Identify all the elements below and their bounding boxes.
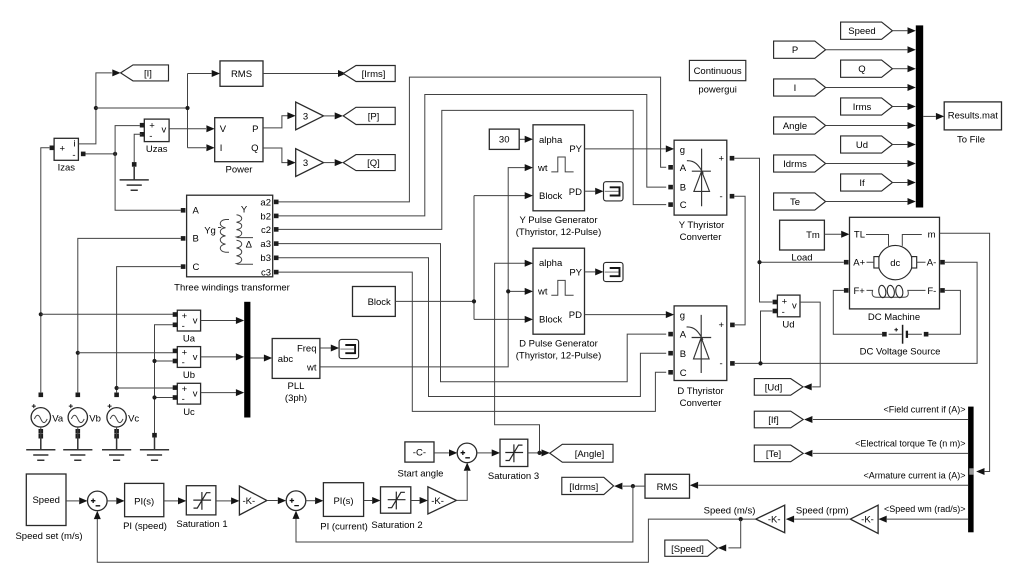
pin DC machine F+ port [844, 288, 849, 293]
pin Ub ports [173, 349, 178, 364]
wire D converter minus to A- and Ud minus [735, 262, 977, 363]
svg-text:[Ud]: [Ud] [765, 382, 782, 393]
wire Speed set to speed sum [66, 497, 88, 504]
svg-text:D Thyristor: D Thyristor [677, 386, 723, 397]
block Saturation 3 [488, 439, 539, 482]
svg-text:[Idrms]: [Idrms] [569, 482, 598, 493]
pin Vb bottom ports [76, 427, 81, 439]
block DC Machine [850, 217, 940, 322]
block RMS (top) [220, 61, 263, 86]
svg-text:P: P [792, 45, 798, 56]
wire sum to PI current [306, 497, 324, 504]
from tag P [774, 41, 826, 58]
wire gain 3a to [P] [324, 112, 344, 119]
svg-text:-: - [182, 394, 185, 405]
svg-text:30: 30 [499, 135, 510, 146]
svg-text:-: - [720, 359, 723, 370]
wire Ud v to [Ud] tag [800, 302, 820, 390]
wire mux to PLL [250, 355, 272, 362]
wire angle sum to saturation 3 [476, 449, 500, 456]
svg-text:v: v [162, 125, 167, 136]
block Saturation 1 [176, 486, 227, 530]
pin D converter A port [668, 332, 673, 337]
wire Idrms feedback to current sum [293, 486, 633, 542]
svg-text:Te: Te [790, 197, 800, 208]
wire saturation 2 to gain 2 [411, 497, 428, 504]
svg-text:PI (current): PI (current) [320, 521, 368, 532]
svg-text:DC Machine: DC Machine [868, 312, 920, 323]
wire into RMS [212, 70, 220, 77]
svg-text:RMS: RMS [657, 482, 678, 493]
wire c3 to D converter C [279, 272, 667, 411]
svg-text:Continuous: Continuous [694, 66, 742, 77]
svg-text:[Speed]: [Speed] [671, 544, 704, 555]
svg-text:B: B [680, 349, 686, 360]
wire Ub v to mux [201, 353, 245, 360]
wire If to recorder mux [892, 179, 915, 186]
svg-text:-: - [720, 192, 723, 203]
ground (neutral) [140, 437, 169, 461]
svg-text:A-: A- [927, 258, 937, 269]
wire I to recorder mux [826, 84, 916, 91]
node current signal split [94, 106, 98, 110]
pin Y converter minus port [730, 194, 735, 199]
pin Ud ports [773, 300, 778, 314]
demux measurement bus [968, 407, 974, 533]
svg-text:-: - [72, 150, 75, 161]
svg-text:v: v [193, 389, 198, 400]
svg-text:-: - [182, 357, 185, 368]
svg-text:c3: c3 [261, 268, 271, 279]
goto tag [I] [112, 65, 168, 81]
svg-text:C: C [680, 368, 687, 379]
wire Y PD to terminator [585, 188, 604, 195]
voltage measurement Uzas [144, 119, 169, 155]
sum current error [286, 491, 306, 511]
voltage measurement Uc [177, 383, 200, 418]
pin transformer B port [181, 236, 186, 241]
wire phase A: Va source up to Izas input, tap to Ua [41, 148, 50, 393]
node wt split [506, 289, 510, 293]
ground (Vc) [102, 437, 131, 461]
svg-text:Ua: Ua [183, 334, 196, 345]
svg-text:P: P [252, 124, 258, 135]
svg-text:[Angle]: [Angle] [575, 449, 605, 460]
svg-text:Speed: Speed [32, 495, 59, 506]
block PI (speed) [123, 483, 167, 531]
wire Y converter minus to D converter plus [734, 196, 745, 325]
svg-text:D Pulse Generator: D Pulse Generator [519, 339, 598, 350]
svg-text:+: + [60, 144, 66, 155]
wire b2 to Y converter B [279, 95, 667, 216]
svg-text:Converter: Converter [680, 398, 722, 409]
wire demux torque to [Te] [804, 450, 968, 457]
svg-text:(3ph): (3ph) [285, 393, 307, 404]
svg-text:Q: Q [251, 143, 258, 154]
wire gain 1 to current sum [267, 497, 286, 504]
pin D converter plus port [730, 323, 735, 328]
node D minus split [758, 361, 762, 365]
gain 3 (P) [296, 102, 324, 130]
wire Uzas v to Power V [169, 125, 215, 132]
pin ground port (neutral) [152, 433, 157, 438]
wire Ub plus tap [78, 352, 173, 354]
svg-text:+: + [719, 320, 725, 331]
label field current [883, 405, 965, 415]
svg-text:Yg: Yg [204, 226, 216, 237]
svg-text:v: v [193, 352, 198, 363]
wire gain rpm to gain m/s [786, 516, 851, 523]
wire to [Speed] tag [718, 519, 741, 551]
svg-text:-K-: -K- [768, 515, 781, 526]
wire alpha to D alpha [495, 260, 540, 453]
svg-text:C: C [680, 200, 687, 211]
wire -C- to angle sum [434, 449, 457, 456]
svg-text:C: C [193, 262, 200, 273]
pin Y converter A port [668, 165, 673, 170]
pin Izas minus output port [81, 152, 86, 157]
svg-text:c2: c2 [261, 225, 271, 236]
pin battery right port [924, 332, 929, 337]
svg-text:To File: To File [957, 135, 985, 146]
svg-text:Converter: Converter [680, 232, 722, 243]
block Power [215, 118, 263, 176]
wire a2 to Y converter A [279, 77, 667, 202]
goto tag [Ud] [754, 379, 803, 396]
svg-text:Speed set (m/s): Speed set (m/s) [15, 531, 82, 542]
svg-text:-K-: -K- [431, 496, 444, 507]
pin transformer a3 port [274, 241, 279, 246]
wire Speed to recorder mux [892, 27, 915, 34]
svg-text:If: If [859, 178, 865, 189]
svg-text:Va: Va [52, 413, 64, 424]
from tag Ud [841, 136, 893, 153]
svg-text:abc: abc [278, 354, 294, 365]
svg-text:Uc: Uc [183, 407, 195, 418]
wire RMS output to [Irms] [263, 70, 346, 77]
svg-text:Block: Block [539, 315, 562, 326]
wire c2 to Y converter C [279, 110, 667, 229]
svg-text:PI(s): PI(s) [134, 496, 154, 507]
pin D converter C port [668, 370, 673, 375]
gain -K- current [428, 487, 457, 514]
svg-text:Speed: Speed [848, 26, 875, 37]
wire node down to transformer A [115, 154, 181, 210]
wire mux to To File [923, 113, 944, 120]
block Y Pulse Generator [516, 125, 602, 238]
svg-text:Power: Power [226, 165, 253, 176]
wire Angle to recorder mux [826, 122, 916, 129]
pin DC machine F- port [940, 288, 945, 293]
svg-text:-: - [182, 321, 185, 332]
svg-text:Ub: Ub [183, 370, 195, 381]
svg-text:Results.mat: Results.mat [948, 111, 999, 122]
constant 30 [489, 129, 519, 149]
wire PLL Freq to terminator [320, 345, 339, 352]
svg-text:Q: Q [858, 64, 865, 75]
label armature current [863, 470, 965, 480]
svg-text:Ud: Ud [782, 320, 794, 331]
svg-text:a2: a2 [260, 197, 271, 208]
svg-text:wt: wt [306, 363, 317, 374]
ground (Vb) [63, 437, 92, 461]
pin Vc bottom ports [114, 427, 119, 439]
wire Y PY to Y converter g [585, 145, 675, 152]
svg-text:Irms: Irms [853, 102, 872, 113]
svg-text:Speed (m/s): Speed (m/s) [704, 505, 756, 516]
wire PI current to saturation 2 [364, 497, 381, 504]
svg-text:<Armature current ia (A)>: <Armature current ia (A)> [863, 470, 965, 480]
wire into Power I [206, 144, 214, 151]
wire Q to recorder mux [892, 65, 915, 72]
svg-text:Izas: Izas [58, 163, 76, 174]
wire Uzas minus to ground [134, 134, 142, 162]
mux Uabc [244, 302, 250, 418]
from tag Irms [841, 98, 893, 115]
wire saturation 1 to gain 1 [216, 497, 240, 504]
wire P to recorder mux [826, 46, 916, 53]
svg-text:TL: TL [854, 229, 865, 240]
wire node up to Uzas plus [115, 126, 140, 154]
wire phase C: Vc source to transformer C [117, 267, 181, 393]
svg-text:alpha: alpha [539, 258, 563, 269]
svg-text:[Irms]: [Irms] [362, 69, 386, 80]
pin Izas input port [50, 146, 55, 151]
pin transformer A port [181, 208, 186, 213]
sum speed error [88, 491, 108, 511]
gain -K- rpm to m/s [756, 505, 785, 533]
wire current node to RMS/Power branch [96, 74, 212, 148]
svg-text:[Q]: [Q] [367, 158, 380, 169]
wire Y converter plus to A+ and Ud plus [734, 158, 844, 302]
wire b3 to D converter B [279, 258, 667, 397]
pin D converter B port [668, 351, 673, 356]
voltage measurement Ud [777, 295, 800, 331]
wire PLL wt to pulse generators [320, 164, 533, 367]
pin Uc ports [173, 385, 178, 400]
node tap Uc on phase C [115, 386, 119, 390]
svg-text:A: A [680, 163, 687, 174]
wire neutral bus to Ua/Ub/Uc minus [155, 325, 173, 433]
svg-text:Idrms: Idrms [783, 159, 807, 170]
svg-text:-C-: -C- [413, 448, 426, 459]
svg-text:Ud: Ud [856, 140, 868, 151]
pin Va bottom ports [39, 427, 44, 439]
svg-text:g: g [680, 145, 685, 156]
pin battery left port [882, 332, 887, 337]
node neutral Uc [152, 395, 156, 399]
wire a3 to D converter A [279, 244, 667, 382]
wire Tm to DC machine TL [824, 231, 849, 238]
pin Vc top port [114, 393, 119, 398]
node current branch RMS/Power [185, 106, 189, 110]
svg-text:<Electrical torque Te (n m)>: <Electrical torque Te (n m)> [855, 439, 965, 449]
svg-text:V: V [220, 124, 227, 135]
node tap Ub on phase B [76, 351, 80, 355]
source Vb [68, 404, 101, 427]
label Speed (rpm) [796, 505, 849, 516]
pin Uzas minus port [140, 132, 145, 137]
svg-text:Uzas: Uzas [146, 144, 168, 155]
goto tag [Te] [754, 445, 803, 462]
wire m to measurement demux [940, 233, 990, 475]
pin Y converter C port [668, 202, 673, 207]
battery DC Voltage Source [860, 325, 941, 358]
pin ground port (Uzas) [132, 162, 137, 167]
svg-text:b3: b3 [260, 253, 271, 264]
block signal source Block [353, 287, 396, 317]
goto tag [P] [343, 107, 395, 124]
node Idrms feedback split [631, 484, 635, 488]
from tag Idrms [774, 155, 826, 172]
svg-text:b2: b2 [260, 211, 271, 222]
goto tag [Q] [343, 155, 395, 171]
wire Uc plus tap [117, 387, 173, 389]
svg-text:[I]: [I] [144, 68, 152, 79]
wire Idrms to recorder mux [826, 160, 916, 167]
pin transformer c2 port [274, 227, 279, 232]
svg-text:A: A [680, 330, 687, 341]
from tag I [774, 79, 826, 96]
pin Vb top port [76, 393, 81, 398]
wire Power Q to gain 3b [263, 148, 296, 166]
svg-text:PI (speed): PI (speed) [123, 521, 167, 532]
from tag If [841, 174, 893, 191]
svg-text:Freq: Freq [297, 344, 317, 355]
block Load Tm [780, 220, 825, 263]
gain 3 (Q) [296, 149, 324, 177]
goto tag [Speed] [665, 540, 718, 556]
wire Izas minus to node [86, 153, 116, 155]
wire Ua plus tap [41, 313, 173, 315]
svg-text:Vc: Vc [128, 413, 139, 424]
node neutral Ub [152, 359, 156, 363]
svg-text:RMS: RMS [231, 69, 252, 80]
svg-text:B: B [680, 183, 686, 194]
wire demux speed to gain rpm [878, 516, 968, 523]
svg-text:(Thyristor, 12-Pulse): (Thyristor, 12-Pulse) [516, 227, 602, 238]
pin transformer C port [181, 264, 186, 269]
terminator display icon (Y PD) [604, 182, 624, 201]
block Saturation 2 [371, 487, 422, 531]
wire phase B: Vb source to transformer B [78, 238, 181, 392]
wire demux field current to [If] [804, 416, 968, 423]
label speed wm [884, 504, 966, 514]
svg-text:PD: PD [569, 310, 582, 321]
wire Te to recorder mux [826, 198, 916, 205]
svg-text:-K-: -K- [861, 515, 874, 526]
svg-text:<Speed wm (rad/s)>: <Speed wm (rad/s)> [884, 504, 966, 514]
node alpha split [537, 451, 541, 455]
label electrical torque [855, 439, 965, 449]
svg-text:Y Pulse Generator: Y Pulse Generator [520, 215, 598, 226]
svg-text:-: - [149, 131, 152, 142]
svg-text:PY: PY [569, 144, 582, 155]
goto tag [If] [754, 411, 803, 428]
svg-text:dc: dc [890, 258, 900, 269]
from tag Angle [774, 117, 826, 134]
svg-text:i: i [73, 139, 75, 150]
svg-text:I: I [794, 83, 797, 94]
wire Izas i output up to current node [78, 73, 111, 144]
terminator display icon (PLL Freq) [339, 339, 359, 358]
pin transformer b2 port [274, 214, 279, 219]
wire F+ to battery [833, 290, 882, 334]
block To File Results.mat [944, 102, 1001, 146]
svg-text:F+: F+ [854, 286, 866, 297]
svg-text:[P]: [P] [368, 112, 380, 123]
svg-text:Block: Block [539, 191, 562, 202]
node speed tag split [739, 517, 743, 521]
svg-text:PD: PD [569, 187, 582, 198]
svg-text:DC Voltage Source: DC Voltage Source [860, 346, 941, 357]
svg-text:[If]: [If] [768, 415, 779, 426]
block Y Thyristor Converter [674, 140, 727, 243]
wire Uc v to mux [201, 389, 245, 396]
block D Pulse Generator [516, 248, 602, 361]
goto tag [Idrms] [562, 477, 614, 494]
svg-text:PLL: PLL [288, 381, 305, 392]
pin D converter minus port [730, 361, 735, 366]
from tag Q [841, 60, 893, 77]
svg-text:alpha: alpha [539, 135, 563, 146]
svg-text:Saturation 2: Saturation 2 [371, 520, 422, 531]
powergui Continuous [689, 60, 745, 95]
block D Thyristor Converter [674, 306, 727, 409]
voltage measurement Ub [177, 347, 200, 382]
svg-text:PI(s): PI(s) [333, 496, 353, 507]
svg-text:Three windings transformer: Three windings transformer [174, 283, 290, 294]
pin DC machine A- port [940, 260, 945, 265]
svg-text:powergui: powergui [698, 85, 737, 96]
svg-text:Saturation 1: Saturation 1 [176, 519, 227, 530]
mux recorder [916, 25, 923, 207]
svg-text:Tm: Tm [806, 230, 820, 241]
node Y plus split [757, 260, 761, 264]
svg-text:a3: a3 [260, 239, 271, 250]
node Block split [472, 299, 476, 303]
pin Y converter plus port [730, 156, 735, 161]
svg-text:Start angle: Start angle [398, 468, 444, 479]
wire F- to battery [928, 290, 960, 334]
source Va [31, 404, 64, 427]
wire Block to Y and D Block inputs [395, 192, 533, 323]
svg-text:A+: A+ [853, 258, 865, 269]
svg-text:g: g [680, 311, 685, 322]
pin Ua ports [173, 312, 178, 327]
voltage measurement Ua [177, 310, 200, 344]
block PI (current) [320, 483, 368, 533]
svg-text:-K-: -K- [243, 496, 256, 507]
svg-text:3: 3 [303, 112, 308, 123]
block RMS (armature) [645, 474, 690, 498]
source Vc [107, 404, 140, 427]
ground (Va) [26, 437, 55, 461]
svg-text:I: I [220, 143, 223, 154]
wire speed m/s to speed feedback [94, 511, 756, 562]
label Speed (m/s) [704, 505, 756, 516]
svg-text:Saturation 3: Saturation 3 [488, 471, 539, 482]
from tag Speed [841, 22, 893, 39]
terminator display icon (D PY) [604, 262, 624, 281]
svg-text:m: m [928, 229, 936, 240]
wire Ua v to mux [201, 317, 245, 324]
wire demux armature current to RMS [690, 482, 968, 489]
pin transformer a2 port [274, 200, 279, 205]
wire Ud to recorder mux [892, 141, 915, 148]
svg-text:Speed (rpm): Speed (rpm) [796, 505, 849, 516]
pin transformer b3 port [274, 255, 279, 260]
